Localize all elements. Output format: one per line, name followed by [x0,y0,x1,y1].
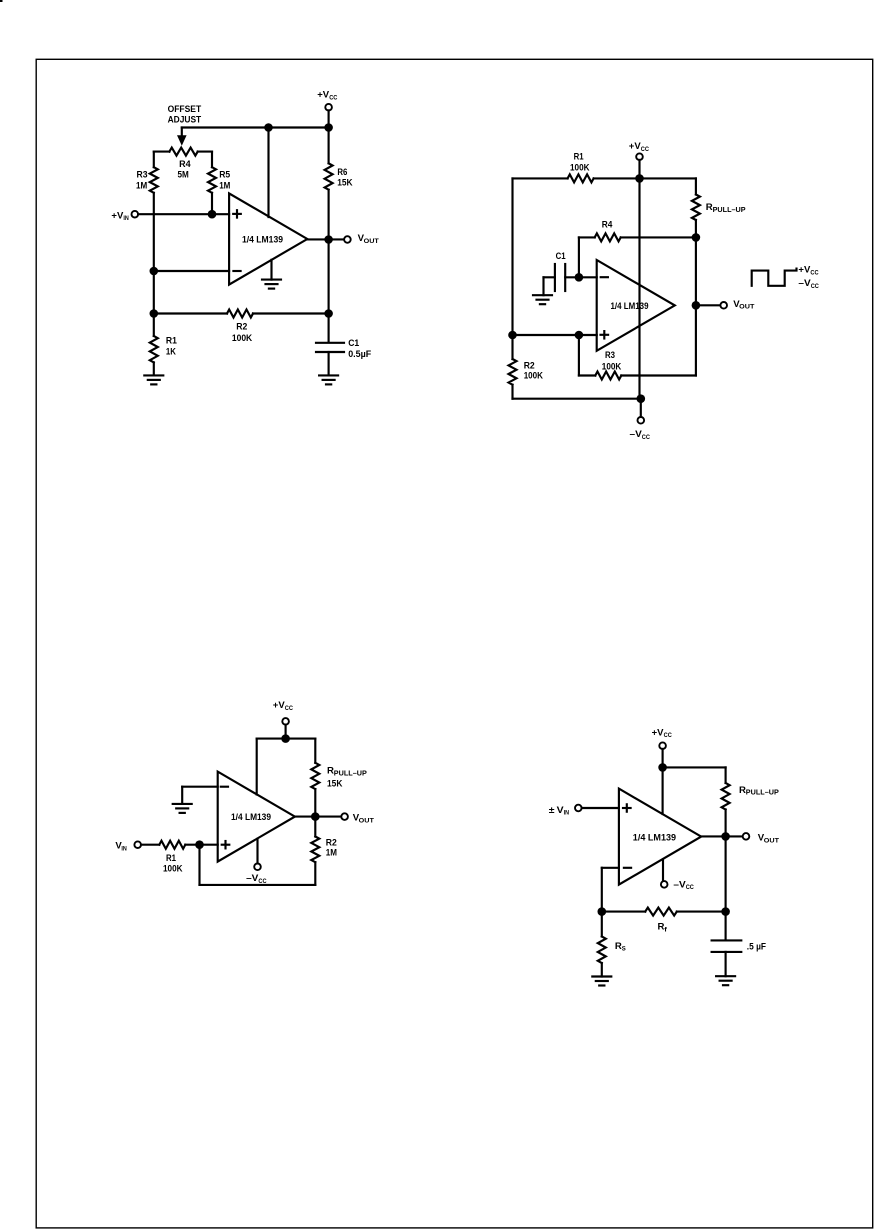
svg-text:100K: 100K [524,370,543,381]
minus input marker c4 [624,867,631,869]
svg-text:+V: +V [798,265,810,276]
wire plus down to R3 c2 [578,335,580,376]
wire R3 right c2 [621,374,696,376]
wire output down to R2 rail c1 [328,240,330,314]
svg-text:CC: CC [686,884,694,891]
capacitor .5uF c4 [712,940,742,952]
svg-text:15K: 15K [337,177,352,188]
circuit 1: comparator with offset adjust [111,90,379,385]
op-amp U1 1/4 LM139 c3 [218,772,295,862]
resistor R1 1K [150,336,158,362]
wire bottom rail c3 [200,884,316,886]
wire offset-adjust top rail c1 [182,126,329,128]
junction output c2 [692,301,701,310]
junction +VIN / R5 c1 [208,210,217,219]
terminal VIN c3 [134,841,141,848]
svg-text:+V: +V [652,727,664,738]
junction +VCC c3 [281,734,290,743]
wire R3 left c2 [579,374,595,376]
wire C1 gnd drop c2 [542,277,544,295]
wire supply rail through op-amp c2 [638,178,640,398]
svg-text:CC: CC [642,434,650,441]
label RS c4 [615,941,626,953]
wire C1 to gnd [328,352,330,375]
wire top rail c4 [663,766,726,768]
resistor R5 1M [208,167,216,193]
wire Rf left c4 [602,911,645,913]
label +VCC waveform [798,265,818,277]
circuit 2: squarewave oscillator [508,141,819,441]
wire to R1 c1 [153,314,155,337]
junction R2/C1 c1 [324,309,333,318]
terminal +VCC c4 [659,742,666,749]
terminal +VIN [132,211,139,218]
svg-text:+V: +V [317,90,329,101]
label -VCC waveform [798,278,819,290]
junction output c3 [311,812,320,821]
svg-text:1M: 1M [136,180,147,191]
svg-text:1/4 LM139: 1/4 LM139 [242,235,283,246]
wire left rail c2 [511,178,513,359]
wire R1 to plus c3 [185,844,217,846]
plus input marker c4 [623,804,631,811]
junction Rf/cap c4 [721,907,730,916]
svg-text:PULL–UP: PULL–UP [746,790,779,797]
junction -VCC c2 [637,394,646,403]
wire VIN to R1 c3 [141,844,159,846]
resistor RPULL-UP 15K c3 [311,763,319,789]
svg-text:CC: CC [285,705,293,712]
ground R1 c1 [144,375,163,384]
terminal VOUT c2 [720,302,727,309]
svg-text:IN: IN [121,846,126,852]
wire to -VCC term c2 [640,399,642,417]
wire to C1 cap [328,314,330,343]
potentiometer arrow c1 [177,128,187,146]
capacitor C1 0.5uF [316,343,344,352]
svg-text:+V: +V [111,210,123,221]
svg-text:IN: IN [564,811,569,817]
svg-text:CC: CC [258,878,266,885]
svg-text:R5: R5 [219,170,231,181]
wire top rail c3 [257,738,316,740]
svg-text:–V: –V [798,278,811,289]
resistor R1 100K c3 [159,841,185,849]
minus input marker c2 [601,276,608,278]
svg-text:CC: CC [641,146,649,153]
label VOUT c2 [733,299,755,311]
wire R2 to bottom rail c3 [314,862,316,885]
wire R2 right c1 [253,312,329,314]
plus input marker c1 [233,210,241,217]
junction plus/R3 c2 [575,331,584,340]
svg-text:R4: R4 [179,159,191,170]
wire cap to gnd c4 [725,952,727,976]
plus input marker c2 [601,331,609,338]
svg-text:PULL–UP: PULL–UP [334,770,367,777]
svg-text:CC: CC [329,94,337,101]
wire R4 right c2 [621,236,696,238]
wire R6 to output c1 [328,190,330,240]
junction +VCC rail c2 [635,174,644,183]
terminal VOUT c4 [743,833,750,840]
wire R5 to +input c1 [211,193,213,214]
svg-text:100K: 100K [602,361,622,372]
wire Rpullup to output c3 [314,789,316,817]
svg-text:–V: –V [673,879,686,890]
junction left rail / +input c2 [508,331,517,340]
svg-text:1/4 LM139: 1/4 LM139 [611,301,649,312]
op-amp U1 1/4 LM139 c1 [229,193,307,284]
minus input marker c1 [233,270,240,272]
wire gnd pin c1 [270,260,272,280]
ground cap c4 [716,976,735,985]
svg-text:OUT: OUT [739,304,755,311]
svg-text:R4: R4 [602,219,613,230]
svg-text:CC: CC [811,283,819,290]
wire right rail to Rpullup c2 [695,178,697,194]
plus input marker c3 [222,841,230,848]
svg-text:IN: IN [123,216,128,222]
label +VCC c4 [652,727,672,739]
op-amp U1 1/4 LM139 c4 [619,789,701,885]
ground C1 c1 [319,375,338,384]
wire pot left stub c1 [154,151,170,153]
resistor R2 1M c3 [311,837,319,863]
wire +VIN to op-amp c1 [138,213,229,215]
svg-text:1K: 1K [166,347,176,358]
junction R4/C1/minus c2 [575,273,584,282]
wire RS to gnd c4 [601,963,603,977]
svg-text:1/4 LM139: 1/4 LM139 [633,833,676,844]
junction minus/left rail c1 [150,267,159,276]
svg-text:OUT: OUT [359,818,375,825]
svg-text:1M: 1M [219,180,230,191]
svg-text:ADJUST: ADJUST [168,115,202,126]
wire output c4 [701,835,743,837]
wire minus input c4 [602,867,619,869]
label -VCC c3 [246,873,267,885]
label +VCC c3 [273,700,293,712]
resistor R3 1M [150,167,158,193]
svg-text:R1: R1 [166,335,178,346]
resistor RS c4 [598,937,606,964]
wire VIN to plus c4 [582,807,619,809]
svg-text:OUT: OUT [364,238,380,245]
svg-text:± V: ± V [549,805,564,816]
svg-text:5M: 5M [178,170,189,181]
terminal +VCC c3 [282,718,289,725]
wire bottom rail c2 [513,398,641,400]
label VOUT c4 [758,833,780,845]
resistor R3 100K c2 [595,372,621,380]
label VOUT c1 [358,233,380,245]
wire V+ supply c3 [256,739,258,795]
resistor R2 100K c2 [509,359,517,385]
terminal +VCC c2 [636,153,643,160]
wire minus down c4 [601,868,603,912]
ground C1 c2 [533,295,552,304]
label +-VIN c4 [549,805,569,817]
resistor R1 100K c2 [568,174,594,182]
wire minus input c1 [154,270,229,272]
wire R3 down to R2 rail c1 [153,193,155,314]
svg-text:PULL–UP: PULL–UP [713,207,746,214]
junction top rail / R6 c1 [324,123,333,132]
wire R4 to R3 c1 [153,152,155,168]
svg-text:R2: R2 [236,322,247,333]
junction Rf/RS c4 [598,907,607,916]
wire R4 to R5 c1 [211,152,213,168]
ground minus input c3 [173,804,192,813]
junction top rail / V+ c1 [264,123,273,132]
junction R4/right rail c2 [692,233,701,242]
label -VCC c2 [630,429,651,441]
wire V- supply c4 [662,859,664,881]
svg-text:CC: CC [810,269,818,276]
resistor RPULL-UP c4 [722,783,730,810]
wire output c3 [295,816,341,818]
ground RS c4 [592,977,611,986]
resistor Rf c4 [645,908,677,916]
svg-text:R6: R6 [337,167,347,178]
wire Rf right c4 [677,911,726,913]
svg-text:C1: C1 [556,251,567,262]
svg-text:–V: –V [246,873,259,884]
terminal VOUT c3 [341,813,348,820]
wire to Rpullup c4 [725,767,727,783]
wire top rail left c2 [513,177,568,179]
svg-text:1/4 LM139: 1/4 LM139 [231,812,271,823]
page corner mark [0,0,3,2]
wire top rail right c2 [594,177,696,179]
svg-text:CC: CC [664,732,672,739]
svg-text:100K: 100K [163,864,183,875]
wire +VCC down c4 [662,749,664,768]
svg-text:f: f [664,926,667,933]
svg-text:C1: C1 [348,338,360,349]
svg-text:100K: 100K [232,333,252,344]
svg-text:15K: 15K [327,779,342,790]
svg-text:.5 µF: .5 µF [747,941,766,952]
svg-text:0.5µF: 0.5µF [348,349,371,360]
ground op-amp c1 [262,280,281,289]
wire +VCC to R6 [328,128,330,164]
svg-text:+V: +V [629,141,641,152]
label RPULL-UP c3 [327,766,367,778]
wire +VCC down c1 [328,110,330,127]
terminal -VCC c3 [254,864,261,871]
label VOUT c3 [353,813,375,825]
resistor R4 c2 [595,233,621,241]
terminal +VCC c1 [325,104,332,111]
wire +VCC down c2 [638,160,640,179]
wire to RS c4 [601,912,603,937]
circuit 4: comparator with hysteresis [549,727,780,985]
wire R4 left c2 [579,236,595,238]
wire output to R2 c3 [314,817,316,837]
wire C1 left c2 [544,276,555,278]
wire R1 to gnd c1 [153,362,155,375]
terminal -VCC c2 [638,417,645,424]
svg-text:R1: R1 [574,151,585,162]
svg-text:R3: R3 [137,170,148,181]
terminal VOUT c1 [344,236,351,243]
label +VCC c2 [629,141,649,153]
resistor R6 15K [325,163,333,189]
label RPULL-UP c2 [706,202,746,214]
wire R4 down to minus c2 [578,237,580,277]
wire C1 to minus input c2 [565,276,597,278]
svg-text:–V: –V [630,429,643,440]
wire minus gnd drop c3 [181,787,183,804]
junction R2/R1 c1 [150,309,159,318]
wire right rail down c4 [725,810,727,912]
resistor R2 100K [227,310,253,318]
terminal -VCC c4 [661,881,668,888]
wire V+ supply c1 [267,128,269,218]
wire pot right stub c1 [198,151,212,153]
circuit 3: basic comparator [115,700,374,885]
label +VIN [111,210,128,222]
wire to Rpullup c3 [314,739,316,763]
wire output stub c2 [696,304,721,306]
junction +VCC c4 [658,763,667,772]
wire +VCC down c3 [285,725,287,739]
squarewave output waveform icon [752,269,797,286]
capacitor C1 c2 [555,264,565,291]
svg-text:S: S [622,946,626,953]
svg-text:R3: R3 [605,350,615,361]
wire R2 to bottom rail c2 [511,385,513,399]
wire R2 left c1 [154,312,227,314]
wire feedback down c3 [198,845,200,885]
svg-text:+V: +V [273,700,285,711]
wire V- supply c3 [256,839,258,864]
svg-text:1M: 1M [326,847,337,858]
wire plus input c2 [513,334,597,336]
svg-text:100K: 100K [570,163,590,174]
wire minus input c3 [182,786,218,788]
resistor RPULL-UP c2 [692,195,700,221]
svg-text:OUT: OUT [764,837,780,844]
potentiometer R4 5M [169,148,197,156]
svg-text:R1: R1 [166,853,177,864]
junction output c1 [324,235,333,244]
junction output c4 [721,832,730,841]
label VIN c3 [115,841,126,853]
label -VCC c4 [673,879,694,891]
wire right rail down c2 [695,220,697,376]
junction plus/feedback c3 [195,840,204,849]
label Rf c4 [658,922,668,934]
wire output c1 [307,238,344,240]
terminal VIN c4 [575,805,582,812]
minus input marker c3 [221,786,228,788]
label RPULL-UP c4 [739,785,779,797]
label +VCC c1 [317,90,337,102]
wire V+ supply c4 [662,767,664,814]
op-amp U1 1/4 LM139 c2 [597,260,675,351]
wire to cap c4 [725,912,727,941]
